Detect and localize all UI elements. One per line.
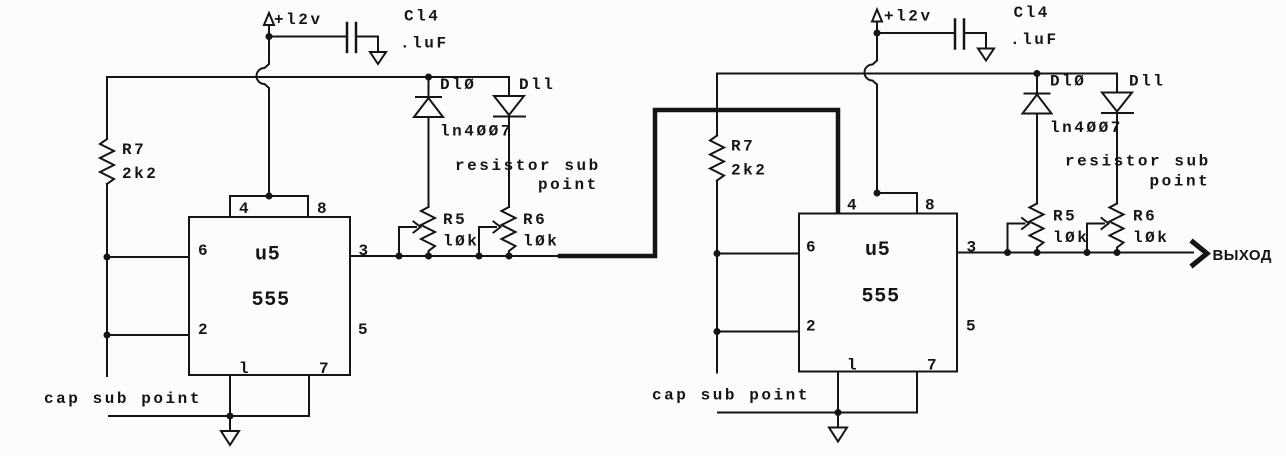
trimmer R6 wiper arrow (2)	[1087, 218, 1109, 253]
diode D10	[414, 77, 443, 117]
svg-text:Dll: Dll	[519, 76, 555, 94]
wire: +12v to capacitor	[269, 36, 346, 38]
svg-text:7: 7	[927, 357, 939, 375]
resistor R7 (2)	[710, 136, 724, 181]
node: +12v junction dot (2)	[874, 30, 881, 37]
node: pin2 junction (2)	[714, 328, 721, 335]
svg-text:8: 8	[317, 200, 329, 218]
wire: to pin 2 (2)	[717, 331, 799, 333]
wire: capacitor to ground	[357, 37, 378, 53]
resistor R7	[100, 139, 114, 184]
svg-text:ВЫХОД: ВЫХОД	[1213, 247, 1272, 264]
op: IC U5 555 box (2)	[799, 214, 957, 372]
svg-text:Cl4: Cl4	[1014, 4, 1050, 22]
trimmer R5	[421, 207, 435, 256]
svg-text:R5: R5	[1053, 208, 1077, 226]
svg-text:2k2: 2k2	[122, 165, 158, 183]
svg-text:6: 6	[806, 239, 818, 257]
svg-text:lØk: lØk	[443, 233, 479, 251]
svg-text:resistor sub: resistor sub	[455, 157, 601, 175]
svg-text:ln4ØØ7: ln4ØØ7	[1050, 119, 1123, 137]
trimmer R5 (2)	[1030, 204, 1044, 253]
node: D10 rail junction (2)	[1034, 70, 1041, 77]
wire: to pin 2	[107, 334, 189, 336]
trimmer R6 wiper arrow	[479, 222, 501, 257]
svg-text:lØk: lØk	[1133, 229, 1169, 247]
svg-text:cap sub point: cap sub point	[44, 390, 202, 408]
trimmer R5 wiper arrow	[399, 222, 421, 257]
wire: +12v to capacitor (2)	[877, 32, 954, 34]
output arrow head	[1191, 241, 1207, 267]
wire: left vertical below R7 (2)	[716, 181, 718, 373]
wire: pin 7 stub (2)	[718, 372, 917, 413]
wire: to pin 6	[107, 256, 189, 258]
node: R5 bottom dot	[425, 253, 432, 260]
svg-text:3: 3	[359, 242, 371, 260]
node: ground junction (2)	[835, 409, 842, 416]
svg-text:resistor sub: resistor sub	[1065, 153, 1211, 171]
node: pin6 junction (2)	[714, 250, 721, 257]
trimmer R6	[502, 207, 516, 256]
wire: D11 to R6 (2)	[1116, 113, 1118, 204]
wire: pin 7 stub	[109, 375, 309, 416]
svg-text:DlØ: DlØ	[1050, 73, 1086, 91]
svg-text:5: 5	[358, 321, 370, 339]
node: R6 wiper dot (2)	[1084, 249, 1091, 256]
node: R5 wiper dot	[396, 253, 403, 260]
node: bridge junction dot	[266, 193, 273, 200]
node: pin2 junction	[104, 332, 111, 339]
wire: D11 to R6	[508, 117, 510, 208]
svg-text:+l2v: +l2v	[274, 11, 323, 29]
svg-text:.luF: .luF	[400, 35, 449, 53]
wire: pin4/pin8 bridge	[230, 196, 308, 217]
svg-text:4: 4	[239, 200, 251, 218]
node: pin6 junction	[104, 254, 111, 261]
node: R5 wiper dot (2)	[1004, 249, 1011, 256]
diode D10 (2)	[1023, 74, 1052, 114]
wire: pin 1 stub	[229, 375, 231, 416]
node: R6 wiper dot	[476, 253, 483, 260]
svg-text:point: point	[538, 176, 599, 194]
node: ground junction	[227, 413, 234, 420]
wire: half bridge to pin 8 (2)	[877, 193, 917, 214]
svg-text:2: 2	[198, 321, 210, 339]
svg-text:l: l	[847, 357, 859, 375]
node: R5 bottom dot (2)	[1034, 249, 1041, 256]
svg-text:+l2v: +l2v	[884, 8, 933, 26]
node: R6 bottom dot	[506, 253, 513, 260]
svg-text:DlØ: DlØ	[440, 76, 476, 94]
svg-text:5: 5	[966, 318, 978, 336]
svg-text:7: 7	[319, 360, 331, 378]
svg-text:u5: u5	[865, 239, 891, 262]
ground (capacitor)	[370, 52, 386, 64]
svg-text:R6: R6	[523, 211, 547, 229]
trimmer R5 wiper arrow (2)	[1008, 218, 1030, 253]
svg-text:555: 555	[862, 286, 900, 309]
svg-text:8: 8	[925, 197, 937, 215]
node: +12v junction dot	[266, 33, 273, 40]
svg-text:555: 555	[252, 289, 290, 312]
capacitor C14 (2)	[955, 20, 964, 49]
wire: ground stub (2)	[837, 413, 839, 428]
capacitor C14	[347, 23, 356, 52]
ground (capacitor 2)	[978, 49, 994, 61]
wire: pin 1 stub (2)	[837, 372, 839, 413]
trimmer R6 (2)	[1110, 204, 1124, 253]
wire: to pin 6 (2)	[717, 253, 799, 255]
node: R6 bottom dot (2)	[1114, 249, 1121, 256]
svg-text:3: 3	[967, 239, 979, 257]
svg-text:lØk: lØk	[523, 233, 559, 251]
power +12V symbol (2)	[872, 10, 882, 30]
node: D10 rail junction	[425, 74, 432, 81]
wire: D10 to R5	[428, 117, 430, 207]
svg-text:R6: R6	[1133, 208, 1157, 226]
wire: D10 to R5 (2)	[1036, 114, 1038, 204]
svg-text:lØk: lØk	[1053, 229, 1089, 247]
wire: +12v down to bridge (with hop over rail)	[257, 37, 270, 197]
svg-text:Cl4: Cl4	[404, 8, 440, 26]
svg-text:ln4ØØ7: ln4ØØ7	[440, 123, 513, 141]
svg-text:.luF: .luF	[1010, 31, 1059, 49]
wire: pin 3 output line (2)	[957, 252, 1193, 254]
svg-text:R7: R7	[122, 141, 146, 159]
svg-text:point: point	[1150, 173, 1211, 191]
svg-text:6: 6	[198, 242, 210, 260]
svg-text:2: 2	[806, 318, 818, 336]
wire: thick link from stage 1 output to stage 2 pin 4	[560, 110, 838, 256]
svg-text:u5: u5	[255, 244, 281, 267]
wire: ground stub	[229, 416, 231, 431]
node: pin8 bridge dot (2)	[874, 190, 881, 197]
svg-text:2k2: 2k2	[731, 162, 767, 180]
diode D11 (2)	[1102, 74, 1133, 114]
diode D11	[494, 77, 525, 117]
wire: left vertical below R7	[106, 184, 108, 376]
svg-text:R5: R5	[443, 211, 467, 229]
svg-text:Dll: Dll	[1129, 73, 1165, 91]
svg-text:cap sub point: cap sub point	[652, 387, 810, 405]
wire: top rail (2)	[717, 74, 1117, 136]
ground (IC)	[221, 431, 239, 445]
wire: capacitor to ground (2)	[965, 33, 986, 49]
op: IC U5 555 box	[189, 217, 350, 375]
svg-text:R7: R7	[731, 138, 755, 156]
ground (IC 2)	[829, 428, 847, 442]
svg-text:4: 4	[847, 197, 859, 215]
wire: top rail	[107, 77, 509, 139]
wire: +12v down to pin8 bridge (with hop) (2)	[865, 33, 878, 193]
power +12V symbol	[264, 13, 274, 33]
wire: pin 3 output line	[350, 255, 562, 257]
svg-text:l: l	[239, 360, 251, 378]
